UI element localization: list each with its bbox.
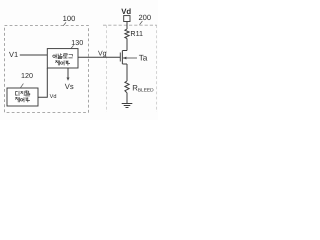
- dashed box 200 (faint): [106, 25, 108, 112]
- wire terminal to R11: [126, 22, 128, 30]
- gate bar: [119, 53, 121, 62]
- leader tick 100: [63, 22, 66, 25]
- resistor R_BLEED: [125, 81, 129, 93]
- wire source to Rbleed: [126, 64, 128, 81]
- svg-text:Ta: Ta: [139, 54, 148, 63]
- wire box120 to box130: [38, 68, 47, 97]
- svg-text:Vs: Vs: [65, 82, 74, 91]
- svg-text:Vd: Vd: [50, 93, 57, 100]
- leader tick 130: [71, 45, 74, 48]
- drain stub: [122, 50, 127, 52]
- ground: [122, 104, 133, 108]
- channel bar: [121, 51, 123, 65]
- wire R11 to drain: [126, 39, 128, 51]
- body line to label: [123, 57, 137, 59]
- box 130 text line2 제어부: [55, 60, 70, 65]
- svg-text:120: 120: [21, 71, 33, 80]
- leader tick 200: [140, 21, 143, 25]
- svg-text:Vg: Vg: [98, 51, 107, 58]
- leader tick 120: [21, 84, 24, 88]
- svg-text:Vd: Vd: [121, 7, 131, 16]
- box 120 text line2 제어부: [15, 97, 30, 102]
- wire V1 to box130: [20, 54, 48, 56]
- box 120: [7, 88, 38, 106]
- svg-text:R11: R11: [130, 29, 143, 38]
- body arrowhead: [123, 57, 127, 60]
- box 120 text line1 디지털: [16, 91, 30, 96]
- wire Rbleed to ground: [126, 93, 128, 104]
- svg-text:200: 200: [138, 13, 151, 22]
- box 130: [47, 49, 78, 68]
- Vs arrow from box130 bottom: [67, 68, 69, 78]
- dashed box 100: [5, 26, 89, 113]
- source stub: [122, 63, 127, 65]
- svg-text:V1: V1: [9, 50, 18, 59]
- box 130 text line1 아날로그: [53, 53, 73, 58]
- terminal square: [124, 16, 130, 22]
- svg-text:100: 100: [63, 14, 76, 23]
- resistor R11: [125, 29, 129, 39]
- transistor Ta (NMOS): [120, 51, 137, 65]
- wire Vg: box130 to gate: [78, 56, 120, 58]
